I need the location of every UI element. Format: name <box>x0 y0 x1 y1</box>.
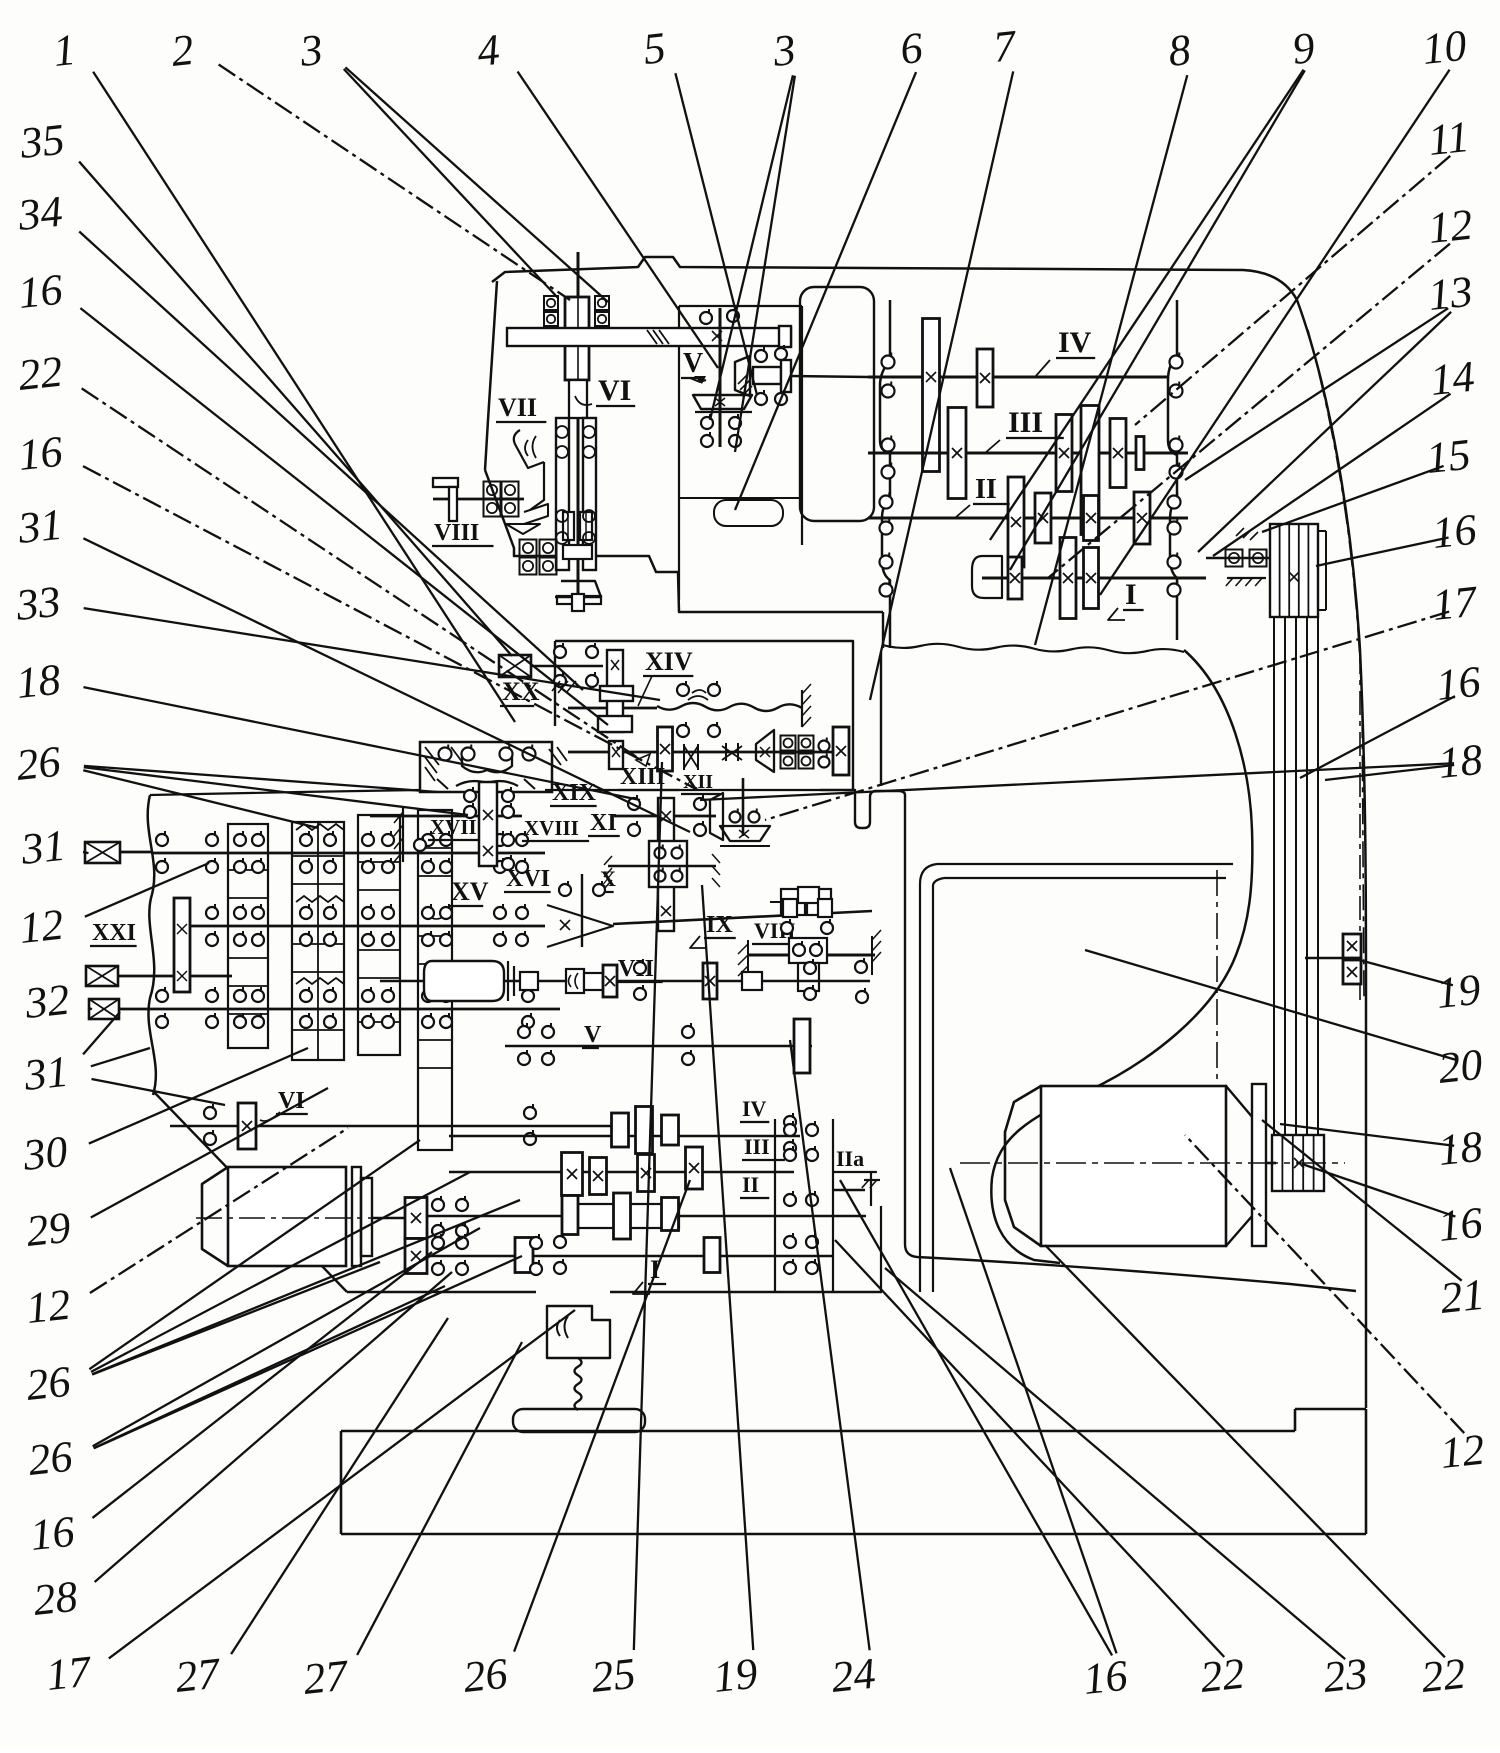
svg-text:VI: VI <box>278 1088 305 1114</box>
svg-text:12: 12 <box>17 900 66 953</box>
svg-text:II: II <box>975 474 997 505</box>
svg-text:9: 9 <box>1290 23 1317 74</box>
svg-text:V: V <box>584 1022 602 1048</box>
shaft X <box>608 865 716 868</box>
feed top housing <box>555 641 853 790</box>
svg-text:32: 32 <box>22 975 72 1028</box>
shaft XIII-XII <box>568 751 833 754</box>
gear column A <box>228 824 268 1048</box>
svg-text:3: 3 <box>770 25 798 76</box>
svg-text:16: 16 <box>1430 505 1479 558</box>
vertical slide dashdot <box>1216 870 1218 1160</box>
belt pulley bottom <box>1272 1135 1324 1191</box>
svg-text:16: 16 <box>28 1507 77 1560</box>
svg-text:1: 1 <box>51 25 78 76</box>
lube pump bracket <box>547 1306 610 1358</box>
svg-text:28: 28 <box>31 1572 80 1625</box>
gear XIII tall <box>658 727 673 771</box>
feed gearbox left wall <box>148 795 156 1095</box>
svg-text:XV: XV <box>451 877 489 906</box>
svg-text:31: 31 <box>15 500 65 553</box>
svg-text:IV: IV <box>1058 326 1092 359</box>
motor centerline <box>960 1162 1345 1164</box>
gear column D <box>418 810 452 1150</box>
shaft feed I <box>427 1255 833 1258</box>
double gear XX-XIV <box>607 650 623 732</box>
machine base <box>341 1430 1295 1433</box>
ratchet housing XIX <box>420 742 552 792</box>
hatch wall top box <box>552 681 576 693</box>
shaft V vertical <box>719 308 722 447</box>
svg-text:15: 15 <box>1424 430 1473 483</box>
svg-text:VIII: VIII <box>434 520 479 546</box>
svg-text:5: 5 <box>641 23 668 74</box>
coupling on IX <box>781 889 805 915</box>
bevel gears on screw <box>1343 934 1361 958</box>
shaft II <box>868 517 1188 520</box>
svg-text:10: 10 <box>1420 21 1469 74</box>
gear cluster XVII-XV <box>479 782 497 866</box>
shaft IV <box>868 376 1168 379</box>
overload clutch bowtie <box>683 744 685 770</box>
svg-text:34: 34 <box>15 187 65 240</box>
feed motor <box>202 1167 228 1266</box>
shaft XXI <box>86 966 118 986</box>
spindle shaft VI vertical <box>577 252 580 612</box>
spindle slide bar <box>507 328 791 346</box>
machine body outline <box>492 257 1297 300</box>
gear column C <box>358 815 400 1055</box>
flexible shaft wavy XIV <box>657 703 802 711</box>
column slot notch <box>820 790 905 828</box>
shaft feed 1 y853 <box>152 852 545 855</box>
lube line wavy <box>575 1358 582 1410</box>
shaft III <box>868 452 1188 455</box>
svg-text:XIII: XIII <box>620 764 665 790</box>
bearings on XIV <box>677 684 689 696</box>
ratchet spring plate <box>462 756 512 772</box>
gear on IV <box>977 349 993 407</box>
v-belt <box>1273 617 1275 1135</box>
pawl lever <box>524 504 548 524</box>
gear block shafts IV-III <box>923 319 940 472</box>
svg-text:II: II <box>742 1172 759 1197</box>
column pocket opening inner curve <box>991 650 1252 1263</box>
bearings above XII <box>677 725 689 737</box>
shaft feed XV y926 <box>175 925 545 928</box>
feed box right wall lower <box>880 1206 882 1292</box>
svg-text:VII: VII <box>498 393 537 422</box>
svg-text:31: 31 <box>21 1047 71 1100</box>
shaft y1009 <box>89 999 119 1019</box>
svg-text:23: 23 <box>1321 1649 1370 1702</box>
cone bevel on XII <box>756 730 774 772</box>
svg-text:22: 22 <box>1419 1649 1468 1702</box>
feed right wall bearings <box>774 1119 776 1292</box>
main motor <box>1005 1086 1041 1246</box>
svg-text:19: 19 <box>711 1649 760 1702</box>
shaft V lower bearings <box>701 417 713 429</box>
shaft XI <box>614 815 716 818</box>
elevating screw centerline <box>1359 650 1361 1000</box>
svg-text:21: 21 <box>1438 1270 1487 1323</box>
svg-text:7: 7 <box>991 21 1020 72</box>
spindle top bearings <box>544 296 558 310</box>
svg-text:XVIII: XVIII <box>524 816 579 840</box>
vertical bevel shaft to XI <box>742 778 745 836</box>
gears on III <box>948 408 966 499</box>
speed gearbox left wall <box>880 300 890 648</box>
shaft IV into head <box>791 376 868 377</box>
svg-text:22: 22 <box>1198 1649 1247 1702</box>
svg-text:30: 30 <box>20 1127 70 1180</box>
bar end plate <box>779 326 791 347</box>
svg-text:35: 35 <box>17 115 67 168</box>
svg-text:13: 13 <box>1426 267 1475 320</box>
motor flange <box>1252 1084 1266 1246</box>
svg-text:29: 29 <box>24 1203 73 1256</box>
belt pulley top <box>1270 524 1318 617</box>
svg-text:8: 8 <box>1166 25 1193 76</box>
svg-text:27: 27 <box>173 1648 224 1702</box>
svg-text:12: 12 <box>1426 200 1475 253</box>
svg-text:2: 2 <box>169 25 196 76</box>
svg-text:IV: IV <box>742 1096 767 1121</box>
svg-text:12: 12 <box>24 1280 73 1333</box>
shaft XIV <box>568 707 657 710</box>
quill upper section <box>569 380 587 418</box>
feed motor axis <box>196 1217 424 1219</box>
svg-text:12: 12 <box>1438 1425 1487 1478</box>
svg-text:11: 11 <box>1426 112 1472 165</box>
svg-text:18: 18 <box>1436 1122 1485 1175</box>
handwheel XX <box>499 655 531 677</box>
gears on I <box>1008 557 1022 599</box>
gear column B <box>292 822 344 1060</box>
svg-text:22: 22 <box>16 347 65 400</box>
speed gearbox right wall <box>1168 300 1177 640</box>
svg-text:33: 33 <box>13 577 63 630</box>
svg-text:26: 26 <box>24 1357 73 1410</box>
hatch wall XIV right end <box>801 690 803 727</box>
svg-text:4: 4 <box>475 25 502 76</box>
motor coupling gears <box>405 1198 427 1239</box>
spindle nose bell <box>555 581 601 597</box>
feed box top inner edge <box>545 789 820 791</box>
bevel gears elevating screw <box>1305 957 1344 959</box>
svg-text:XIV: XIV <box>645 647 693 676</box>
svg-text:XXI: XXI <box>92 920 136 946</box>
feed gearbox top edge <box>150 792 300 795</box>
shaft feed VI <box>170 1125 620 1128</box>
svg-text:31: 31 <box>18 821 68 874</box>
shaft feed IV <box>449 1135 800 1138</box>
svg-text:20: 20 <box>1436 1040 1485 1093</box>
svg-text:IX: IX <box>706 912 733 938</box>
svg-text:17: 17 <box>1430 576 1481 630</box>
svg-text:26: 26 <box>461 1649 510 1702</box>
safety clutch barrel <box>424 961 504 1001</box>
callout numbers and leader lines <box>93 72 515 722</box>
svg-text:I: I <box>650 1255 660 1284</box>
inner head panel <box>800 287 874 521</box>
bearings rows feed shafts <box>156 834 168 846</box>
column joint wavy line <box>883 644 1184 653</box>
clutch on shaft IV end <box>753 367 781 384</box>
svg-text:24: 24 <box>829 1649 878 1702</box>
shaft feed V <box>505 1045 812 1048</box>
input shaft bearings <box>1226 550 1243 567</box>
feed box bottom edge <box>347 1291 536 1293</box>
head left edge <box>485 281 497 470</box>
head lower bearings <box>520 540 537 557</box>
bevel gear on V lower <box>693 395 752 409</box>
svg-text:16: 16 <box>16 427 65 480</box>
svg-text:3: 3 <box>297 25 325 76</box>
svg-text:16: 16 <box>1434 657 1483 710</box>
svg-text:26: 26 <box>14 737 63 790</box>
svg-text:XI: XI <box>590 810 617 836</box>
svg-text:18: 18 <box>1436 735 1485 788</box>
svg-text:III: III <box>1008 406 1043 439</box>
base foot pad <box>513 1409 645 1432</box>
svg-text:25: 25 <box>589 1649 638 1702</box>
bearings XII right <box>781 736 796 751</box>
shaft VIII vertical totem <box>798 887 819 903</box>
svg-text:18: 18 <box>14 655 63 708</box>
central gear cluster XI-XVI <box>658 798 674 931</box>
bevel gear on V horizontal <box>735 356 750 396</box>
column pocket outer wall <box>905 795 1356 1291</box>
motor shaft to pulley <box>1266 1162 1276 1165</box>
svg-text:14: 14 <box>1428 352 1477 405</box>
shifter yoke on I <box>972 556 1002 598</box>
svg-text:17: 17 <box>44 1646 95 1700</box>
universal joint XII <box>725 743 727 761</box>
shaft feed II <box>427 1215 866 1218</box>
svg-text:19: 19 <box>1434 965 1483 1018</box>
shaft XVI-IX <box>613 911 872 924</box>
svg-text:IIa: IIa <box>836 1146 864 1171</box>
shaft feed III <box>449 1171 794 1174</box>
svg-text:III: III <box>744 1134 770 1159</box>
gears on II <box>1008 477 1024 567</box>
shaft VII with clutch barrel <box>380 980 870 982</box>
gear on XIII stem <box>609 741 623 769</box>
head cavity walls <box>678 306 680 600</box>
svg-text:I: I <box>1125 578 1137 611</box>
svg-text:6: 6 <box>898 23 925 74</box>
spindle lower housing <box>556 418 569 570</box>
gear on spindle top <box>565 297 589 380</box>
shaft XVII <box>370 815 479 818</box>
svg-text:26: 26 <box>26 1432 75 1485</box>
head bottom outline <box>485 470 883 612</box>
svg-text:16: 16 <box>16 265 65 318</box>
svg-text:V: V <box>683 348 703 379</box>
shaft I top <box>982 577 1206 580</box>
svg-text:27: 27 <box>301 1650 352 1704</box>
spline marks <box>296 824 344 830</box>
input xbox y852 <box>85 842 120 863</box>
svg-text:16: 16 <box>1081 1651 1130 1704</box>
svg-text:16: 16 <box>1436 1198 1485 1251</box>
svg-text:VI: VI <box>598 374 631 407</box>
window inner wall top edge <box>937 863 1233 865</box>
hatch wall left of XVII <box>402 806 404 862</box>
hidden edge dashdot right side <box>1308 330 1364 1000</box>
gear XII right end <box>833 727 849 775</box>
